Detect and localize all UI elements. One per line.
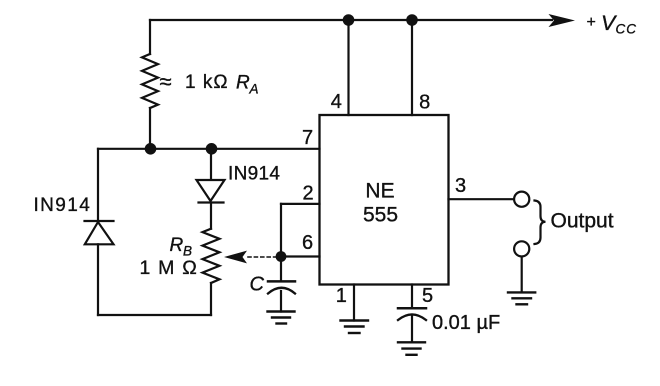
op-amp U1: NE555 IC body [320,115,449,285]
svg-text:1: 1 [336,285,347,307]
svg-text:CC: CC [616,22,638,37]
wire: D2 to RB top [210,203,212,229]
diode D1 IN914 (left, cathode up) [85,221,114,244]
svg-text:IN914: IN914 [228,164,280,185]
label: +Vcc [587,11,638,37]
svg-text:C: C [250,274,265,296]
svg-text:8: 8 [419,92,430,114]
capacitor C2 (0.01 uF) [398,308,426,320]
svg-text:1 kΩ: 1 kΩ [185,72,229,93]
Vcc arrow head [549,14,576,27]
wire: dashed wiper link [248,256,278,258]
svg-text:0.01 µF: 0.01 µF [432,312,500,334]
resistor RB (1 M ohm) [203,229,220,283]
svg-text:+: + [587,14,596,31]
node: diode branch junction [206,143,218,155]
node: pin 6 junction [276,251,287,262]
wire: bottom return [98,314,211,316]
value label: RB 1 M Ohm [140,235,199,279]
wire: node to diode D2 [210,149,212,180]
resistor RA (1 k ohm) [142,54,158,108]
wire: pin 5 to capacitor C2 [411,285,413,309]
wire: pin 6 stub [281,255,320,257]
ground under C [268,312,295,324]
wire: RB bottom to bottom return [210,283,212,315]
ground under output terminal [508,292,535,304]
wire: C2 to ground [411,316,413,342]
output terminal (bottom circle) [514,241,529,256]
svg-text:7: 7 [302,127,313,149]
wire: rail down to RA top [149,20,151,54]
wire: pin 7 horizontal row [98,148,320,150]
node: rail junction pin 4 [343,14,355,26]
wire: pin2 to pin6 vertical [280,204,282,257]
svg-text:≈: ≈ [160,69,172,94]
value label: ~ 1 kOhm RA [160,69,259,97]
svg-text:Output: Output [551,210,614,233]
brace for Output [535,201,546,245]
svg-text:5: 5 [422,285,433,307]
diode D2 IN914 (right, cathode down) [197,180,225,203]
svg-text:A: A [249,82,259,97]
wire: D1 to bottom wire [97,244,99,315]
svg-text:4: 4 [331,91,342,113]
svg-text:R: R [236,73,250,94]
wire: node down to capacitor C [280,257,282,282]
svg-text:1 M Ω: 1 M Ω [140,257,199,279]
svg-text:2: 2 [302,183,313,205]
wire: pin 3 output stub [449,198,515,200]
wire: +Vcc top rail [150,19,552,21]
capacitor C (timing) [268,281,295,293]
svg-text:555: 555 [363,204,398,227]
svg-text:R: R [170,235,184,256]
ground under C2 [398,342,425,355]
ground under pin 1 [341,321,369,334]
wire: RA bottom to node row [149,108,151,149]
svg-text:NE: NE [365,180,394,203]
output terminal (top circle) [514,192,529,207]
svg-text:3: 3 [455,175,466,197]
IC name NE 555 [363,180,398,227]
svg-text:IN914: IN914 [34,195,92,216]
wire: C to ground [280,291,282,312]
node: RA bottom junction [145,143,157,155]
wire: pin 8 drop from rail [411,20,413,115]
wire: left branch down to diode D1 [97,149,99,221]
wire: pin 1 to ground [353,285,355,321]
node: rail junction pin 8 [406,14,418,26]
svg-text:6: 6 [302,232,313,254]
wire: pin 4 drop from rail [347,20,349,115]
wire: pin 2 stub [281,203,320,205]
wire: lower terminal to ground [521,257,523,293]
wiper arrow into RB [224,251,247,264]
